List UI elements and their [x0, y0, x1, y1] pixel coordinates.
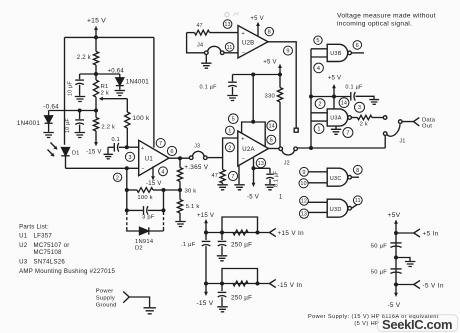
wire 47 loop left: [187, 33, 205, 53]
node inverting input junction: [125, 166, 129, 170]
svg-text:-5 V: -5 V: [388, 302, 401, 309]
power +5V label arrow: [395, 222, 397, 233]
wire +5 rail U3A: [311, 96, 350, 98]
U2A pin13 node: [253, 158, 255, 169]
node divider: [178, 188, 182, 192]
wire +5 rail vert: [395, 233, 397, 285]
capacitor 0.1uF U3A: [350, 92, 352, 101]
svg-text:+.365 V: +.365 V: [184, 164, 208, 171]
pin 6 label: [167, 146, 176, 155]
svg-text:+15 V In: +15 V In: [278, 230, 305, 237]
U1 pin4 -15V arrow: [152, 166, 154, 177]
node U1 output: [178, 156, 182, 160]
wire data line: [297, 136, 385, 149]
svg-text:6: 6: [270, 138, 273, 144]
svg-text:2.2 k: 2.2 k: [101, 124, 115, 130]
svg-text:10 µF: 10 µF: [65, 118, 71, 133]
svg-text:U1: U1: [19, 232, 28, 239]
resistor bead -15: [233, 281, 248, 286]
wire strobe up to +5 rail: [252, 75, 254, 122]
capacitor 0.1 at pin3: [108, 146, 114, 148]
wire U1 output: [169, 157, 190, 159]
svg-text:+: +: [141, 146, 144, 152]
svg-text:U2B: U2B: [242, 40, 254, 46]
wire U1 pin7 from +15 rail: [153, 37, 155, 147]
node top-rail junction: [94, 35, 98, 39]
potentiometer R1 2k: [93, 80, 98, 97]
svg-text:9: 9: [286, 49, 289, 55]
svg-text:SN74LS26: SN74LS26: [34, 258, 66, 265]
wire U3B pin5 stub: [311, 48, 327, 50]
svg-text:1: 1: [279, 195, 283, 201]
svg-text:+15 V: +15 V: [87, 18, 106, 25]
wire pin3 to U1: [127, 146, 139, 148]
node pin14 junction: [332, 95, 336, 99]
wire +15V top rail: [65, 36, 154, 38]
svg-text:2: 2: [318, 102, 321, 108]
power ground connector: [123, 292, 149, 308]
svg-text:U3: U3: [19, 258, 28, 265]
node m15 b: [220, 282, 224, 286]
op-amp U1 LF357: [139, 140, 169, 175]
power +5V arrow U3A: [333, 87, 335, 97]
nand U3C: [327, 168, 348, 186]
terminal square U2B out: [294, 128, 298, 132]
svg-text:13: 13: [258, 161, 264, 167]
diode 1N4001 upper: [119, 74, 121, 78]
wire U3D inputs: [308, 202, 327, 212]
photodiode D1: [62, 148, 70, 156]
svg-text:Power: Power: [96, 288, 114, 294]
pin 14 label: [267, 121, 277, 131]
ground U3A pin7: [335, 126, 337, 129]
resistor bead +15: [233, 230, 248, 235]
pin 12 label U3D: [300, 196, 309, 205]
strap loop -15: [222, 269, 258, 284]
svg-text:D1: D1: [72, 151, 80, 157]
resistor 2.2k lower: [95, 111, 97, 118]
svg-text:U2A: U2A: [242, 147, 254, 153]
svg-text:MC75108: MC75108: [34, 249, 63, 256]
op-amp U2A: [238, 131, 269, 166]
svg-text:8: 8: [268, 30, 271, 36]
node p5 b: [394, 256, 398, 260]
node 2.2k lower junction: [94, 109, 98, 113]
svg-text:-5 V In: -5 V In: [423, 283, 444, 290]
wire inverting input rail: [66, 167, 139, 169]
node strobe: [251, 120, 255, 124]
resistor 2k: [352, 117, 358, 119]
svg-text:4: 4: [161, 169, 164, 175]
wire U3C inputs: [308, 172, 327, 183]
wire U3C output: [352, 176, 359, 178]
svg-text:47: 47: [197, 23, 203, 29]
U2A minus ground: [238, 166, 240, 184]
connector J3: [189, 156, 193, 160]
wire feedback to divider: [164, 189, 181, 191]
wire input jog up: [223, 138, 238, 158]
svg-text:-15 V In: -15 V In: [278, 282, 303, 289]
svg-text:J3: J3: [194, 143, 200, 149]
svg-text:-15 V: -15 V: [86, 149, 102, 155]
capacitor 10uF upper: [79, 74, 81, 79]
svg-text:U3A: U3A: [330, 116, 342, 122]
ground 0.1uF U3A: [369, 100, 379, 105]
power -15V label arrow: [205, 284, 207, 294]
svg-text:30 k: 30 k: [185, 188, 197, 194]
wire J4 to U2B: [224, 52, 238, 54]
svg-text:J2: J2: [284, 160, 290, 166]
pin 13 label U2B: [223, 20, 232, 29]
svg-text:+0.64: +0.64: [108, 69, 125, 75]
svg-text:J4: J4: [197, 43, 203, 49]
capacitor 10uF lower: [79, 111, 81, 120]
nand U3D: [327, 199, 348, 217]
svg-text:LF357: LF357: [34, 232, 53, 239]
pin 7 label U2A: [228, 171, 237, 180]
node 330 top: [278, 73, 282, 77]
power +15V label arrow: [205, 222, 207, 233]
ground 1N4001 left: [43, 133, 53, 138]
ground 0.1 pin3: [104, 154, 113, 159]
capacitor 3pF: [126, 190, 128, 210]
svg-text:.1 µF: .1 µF: [181, 242, 196, 248]
wire J3 to U2A: [207, 157, 223, 159]
wire U2A output: [269, 148, 280, 150]
connector -5V In: [396, 280, 420, 288]
svg-text:+5V: +5V: [388, 212, 401, 219]
svg-text:SeekIC.com: SeekIC.com: [382, 317, 452, 332]
pin 9 label: [284, 46, 293, 55]
ground 0.1uF rail: [227, 96, 237, 101]
svg-text:+5 In: +5 In: [423, 231, 439, 238]
wire +5 mid ground: [396, 258, 410, 262]
node R1 top junction: [94, 72, 98, 76]
resistor 2.2k upper: [95, 37, 97, 51]
svg-text:+5 V: +5 V: [250, 16, 264, 22]
svg-text:1N4001: 1N4001: [17, 120, 40, 127]
wire +15 rail: [206, 232, 270, 234]
svg-text:0.1: 0.1: [112, 137, 120, 143]
svg-text:-15 V: -15 V: [146, 181, 162, 187]
node p15 c: [256, 231, 260, 235]
svg-text:Out: Out: [422, 124, 432, 130]
wire U3A pin1 stub: [311, 120, 327, 122]
wire U3B pin4 stub: [311, 56, 327, 58]
svg-text:5: 5: [232, 117, 235, 123]
ground 10uF upper: [75, 97, 85, 102]
ground 1N4001 upper: [115, 91, 125, 96]
wire J1 to data out: [402, 118, 419, 126]
svg-text:−: −: [141, 167, 144, 173]
svg-text:+5 V: +5 V: [328, 75, 342, 81]
pin 11 label U2B: [225, 43, 234, 52]
strap loop +15: [222, 217, 258, 233]
node feedback left: [125, 188, 129, 192]
svg-text:1N914: 1N914: [135, 239, 154, 245]
svg-text:5.1 k: 5.1 k: [186, 204, 200, 210]
svg-text:+15 V: +15 V: [197, 213, 214, 219]
node feedback right: [162, 188, 166, 192]
pin 8 label: [265, 27, 273, 35]
capacitor 250uF -15: [221, 284, 223, 292]
ground 0.1uF U2A: [265, 185, 275, 190]
pin 5 label U3B: [314, 36, 322, 44]
svg-text:9: 9: [302, 170, 305, 176]
svg-text:Voltage measure made without: Voltage measure made without: [337, 13, 436, 20]
node m15 a: [204, 282, 208, 286]
svg-text:7: 7: [159, 141, 162, 147]
svg-text:1: 1: [228, 129, 231, 135]
connector J4: [205, 51, 209, 55]
svg-text:AMP Mounting Bushing #227015: AMP Mounting Bushing #227015: [19, 268, 115, 275]
svg-text:-15 V: -15 V: [197, 300, 214, 307]
svg-text:250 µF: 250 µF: [231, 294, 252, 301]
pin 14 label U3A: [339, 98, 349, 108]
power -5V label arrow: [395, 285, 397, 295]
wire U3B output: [352, 52, 364, 54]
pin 9 label U3C: [300, 167, 309, 176]
resistor 100k feedback: [127, 189, 137, 191]
node strobe rail: [251, 73, 255, 77]
svg-text:0.1 µF: 0.1 µF: [345, 84, 363, 90]
svg-text:J1: J1: [400, 138, 406, 144]
power -5V arrow U2A: [253, 168, 255, 184]
svg-text:7: 7: [231, 174, 234, 180]
svg-text:2.2 k: 2.2 k: [77, 55, 92, 61]
ground 250uF -15: [217, 307, 227, 312]
pin 5 label: [229, 114, 239, 124]
ground 47 U2A: [217, 185, 227, 190]
svg-text:D2: D2: [135, 246, 143, 252]
svg-text:Supply: Supply: [96, 295, 115, 301]
wire U2A strobe box: [242, 122, 266, 147]
R1 wiper arrow: [102, 98, 128, 100]
node p15 b: [220, 231, 224, 235]
svg-text:3 pF: 3 pF: [142, 215, 155, 221]
ground 250uF +15: [217, 256, 227, 261]
svg-text:6: 6: [170, 149, 173, 155]
svg-text:0.1 µF: 0.1 µF: [200, 85, 218, 91]
svg-text:8: 8: [356, 168, 359, 174]
capacitor 0.1uF U2A: [254, 168, 271, 173]
svg-text:5: 5: [316, 38, 319, 44]
svg-text:U3D: U3D: [330, 207, 342, 213]
connector +15V In: [270, 228, 276, 236]
nand U3B: [327, 44, 348, 61]
capacitor 250uF +15: [221, 233, 223, 241]
svg-text:14: 14: [341, 101, 347, 107]
node p15 a: [204, 231, 208, 235]
svg-text:3: 3: [128, 155, 131, 161]
wire -15 rail: [206, 283, 270, 285]
wire U3A pin2 stub: [311, 112, 327, 114]
node p5 a: [394, 231, 398, 235]
ground 10uF lower: [75, 133, 85, 138]
connector -15V In: [270, 279, 276, 287]
svg-text:Data: Data: [422, 117, 436, 123]
ground J4: [205, 55, 207, 63]
svg-text:+5 V: +5 V: [263, 59, 277, 65]
svg-text:4: 4: [317, 66, 320, 72]
svg-text:2: 2: [116, 175, 119, 181]
svg-text:250 µF: 250 µF: [231, 242, 252, 249]
svg-text:-0.64: -0.64: [43, 103, 59, 110]
pin 10 label U3C: [299, 179, 308, 188]
pin 7 label U3A: [343, 128, 353, 138]
svg-text:2: 2: [228, 145, 231, 151]
pin 3 label U3A: [355, 102, 365, 112]
pin 8 label U3C: [353, 165, 362, 174]
svg-text:10: 10: [300, 181, 306, 187]
svg-text:14: 14: [269, 124, 275, 130]
svg-text:1: 1: [317, 127, 320, 133]
pin 2 label U3A: [315, 99, 325, 109]
svg-text:MC75107 or: MC75107 or: [34, 242, 70, 249]
wire U3B input bus: [310, 49, 312, 148]
pin 7 label: [156, 139, 165, 148]
wire +5 rail U2A: [233, 74, 281, 76]
ground 5.1k: [175, 222, 185, 227]
pin 13 label: [256, 158, 265, 167]
pin 4 label U3B: [314, 63, 324, 73]
svg-text:U2: U2: [19, 242, 28, 249]
pin 1 label U3A: [314, 124, 324, 134]
pin 2 label U2A: [225, 143, 234, 152]
capacitor 50uF lower: [390, 268, 401, 270]
svg-text:Ground: Ground: [96, 302, 117, 308]
svg-text:1N4001: 1N4001: [126, 79, 149, 86]
diode 1N4001 left: [48, 111, 50, 116]
svg-text:13: 13: [301, 212, 307, 218]
svg-text:Parts List:: Parts List:: [19, 224, 49, 231]
capacitor .1uF supply: [205, 233, 207, 241]
svg-text:(5 V) HP: (5 V) HP: [354, 321, 379, 327]
pin 3 label: [125, 152, 134, 161]
op-amp U2B: [238, 26, 268, 59]
wire left box edge down to D1: [64, 37, 66, 144]
svg-text:13: 13: [224, 22, 230, 28]
connector J1: [383, 116, 387, 120]
wire -0.64 node rail: [49, 110, 96, 112]
ground power supply: [144, 308, 156, 314]
svg-text:11: 11: [227, 45, 233, 51]
wire to 1N4001 upper: [96, 73, 120, 75]
power +5V arrow U2B: [257, 25, 259, 37]
resistor 47 at U2A input: [222, 158, 224, 170]
capacitor 0.1uF rail: [232, 75, 234, 82]
resistor 47 top: [187, 32, 195, 34]
ground +5 mid: [405, 262, 415, 267]
node data line: [309, 146, 313, 150]
svg-text:U3C: U3C: [330, 176, 342, 182]
svg-text:7: 7: [346, 131, 349, 137]
power +5V arrow 330: [279, 67, 281, 75]
svg-text:3: 3: [358, 105, 361, 111]
svg-text:47: 47: [212, 173, 219, 179]
resistor 100k vertical: [125, 112, 130, 128]
wire U2B output: [268, 42, 296, 128]
pin 13 label U3D: [299, 209, 308, 218]
power -15V arrow below 2.2k: [95, 131, 97, 144]
pin 11 label U3D: [353, 196, 362, 205]
nand U3A: [327, 109, 348, 126]
pin 1 label: [226, 126, 235, 135]
power +15V supply arrow: [95, 29, 97, 38]
svg-text:incoming optical signal.: incoming optical signal.: [337, 20, 412, 27]
svg-text:2 k: 2 k: [360, 121, 368, 127]
wire pin14 stub: [333, 97, 335, 109]
svg-text:U3B: U3B: [330, 51, 342, 57]
svg-text:−: −: [242, 156, 245, 162]
svg-text:6: 6: [356, 43, 359, 49]
wire U3D output: [352, 205, 357, 209]
svg-text:11: 11: [355, 198, 361, 204]
pin 6 label U3B: [353, 41, 362, 50]
resistor 330: [279, 75, 281, 88]
pin 6 label: [267, 135, 276, 144]
svg-text:U1: U1: [145, 157, 154, 163]
resistor 5.1k: [177, 200, 182, 214]
svg-text:+: +: [242, 31, 245, 37]
svg-text:330: 330: [265, 94, 275, 100]
pin 2 label: [113, 173, 121, 181]
svg-text:12: 12: [301, 199, 307, 205]
diode D2 1N914 dashed branch: [126, 212, 128, 227]
wire to 10uF upper: [80, 73, 96, 75]
pin 4 label: [159, 167, 168, 176]
faint specks: [225, 12, 239, 16]
D1 light arrows: [51, 143, 58, 150]
svg-text:+: +: [241, 136, 244, 142]
connector +5 In: [396, 229, 420, 237]
connector J2: [279, 147, 283, 151]
svg-text:−: −: [242, 50, 245, 56]
capacitor 50uF upper: [390, 242, 401, 244]
svg-text:-5 V: -5 V: [247, 195, 259, 201]
wire feedback left leg: [126, 168, 128, 190]
node bus +5 rail: [309, 95, 313, 99]
node pin3: [125, 145, 129, 149]
svg-text:R1: R1: [101, 84, 109, 90]
node 10uF lower junction: [78, 109, 82, 113]
resistor 30k: [179, 158, 181, 167]
svg-text:2 k: 2 k: [101, 90, 109, 96]
watermark box: [378, 315, 458, 331]
node p5 c: [394, 283, 398, 287]
svg-text:50 µF: 50 µF: [371, 244, 387, 250]
svg-text:100 k: 100 k: [137, 195, 152, 201]
svg-text:50 µF: 50 µF: [371, 270, 387, 276]
node m15 c: [256, 282, 260, 286]
svg-text:100 k: 100 k: [133, 115, 150, 122]
svg-text:10 µF: 10 µF: [68, 81, 74, 96]
